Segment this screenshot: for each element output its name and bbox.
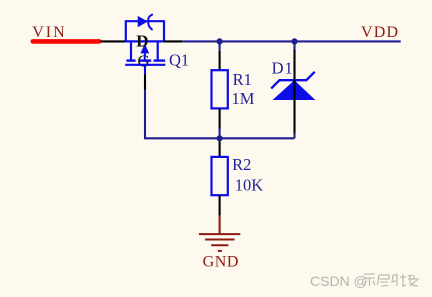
svg-text:R1: R1 xyxy=(233,70,252,89)
svg-text:10K: 10K xyxy=(235,175,263,194)
pin R1 top xyxy=(219,51,221,71)
transistor Q1 body diode triangle xyxy=(138,16,148,27)
pin R2 bottom xyxy=(219,195,221,215)
watermark CJK glyph blocks xyxy=(364,274,419,286)
wire top rail to VDD xyxy=(182,40,400,42)
pin R2 top xyxy=(219,141,221,157)
transistor Q1 body graphics xyxy=(125,21,166,74)
wire gate down and across bottom xyxy=(145,90,295,139)
ground bar 3 xyxy=(211,244,228,246)
pin gate black segment xyxy=(144,74,146,90)
svg-text:D1: D1 xyxy=(272,58,294,77)
svg-text:Q1: Q1 xyxy=(169,50,189,69)
svg-text:1M: 1M xyxy=(232,89,255,108)
svg-text:CSDN @: CSDN @ xyxy=(310,273,368,289)
junction dot top D1 xyxy=(291,38,297,44)
ground bar 2 xyxy=(205,239,234,241)
diode D1 triangle xyxy=(273,80,316,100)
svg-text:VIN: VIN xyxy=(32,24,66,41)
diode D1 zener cathode bar xyxy=(271,72,315,89)
svg-text:VDD: VDD xyxy=(361,24,399,41)
junction dot bottom xyxy=(217,135,223,141)
wire stub junction to R1 xyxy=(219,41,221,50)
ground stub xyxy=(219,216,221,235)
pin D1 vertical black xyxy=(293,50,295,134)
ground bar 4 xyxy=(218,250,222,252)
junction dot top R1 xyxy=(217,38,223,44)
wire R1 bottom stub xyxy=(219,129,221,139)
wire VIN thick red xyxy=(33,39,100,44)
wire stub junction to D1 xyxy=(293,41,295,50)
transistor Q1 body diode cathode squiggle xyxy=(148,15,152,30)
svg-text:GND: GND xyxy=(203,253,239,270)
wire black left stub to Q1 xyxy=(101,40,127,42)
wire D1 bottom navy corner xyxy=(293,134,295,139)
svg-text:R2: R2 xyxy=(232,155,251,174)
pin R1 bottom xyxy=(219,108,221,128)
resistor R1 xyxy=(212,70,228,108)
resistor R2 xyxy=(212,157,228,195)
transistor Q1 substrate arrowhead xyxy=(140,44,149,54)
svg-text:D: D xyxy=(136,31,148,50)
ground bar 1 xyxy=(199,233,240,235)
pin Q1 right black segment xyxy=(164,40,182,42)
